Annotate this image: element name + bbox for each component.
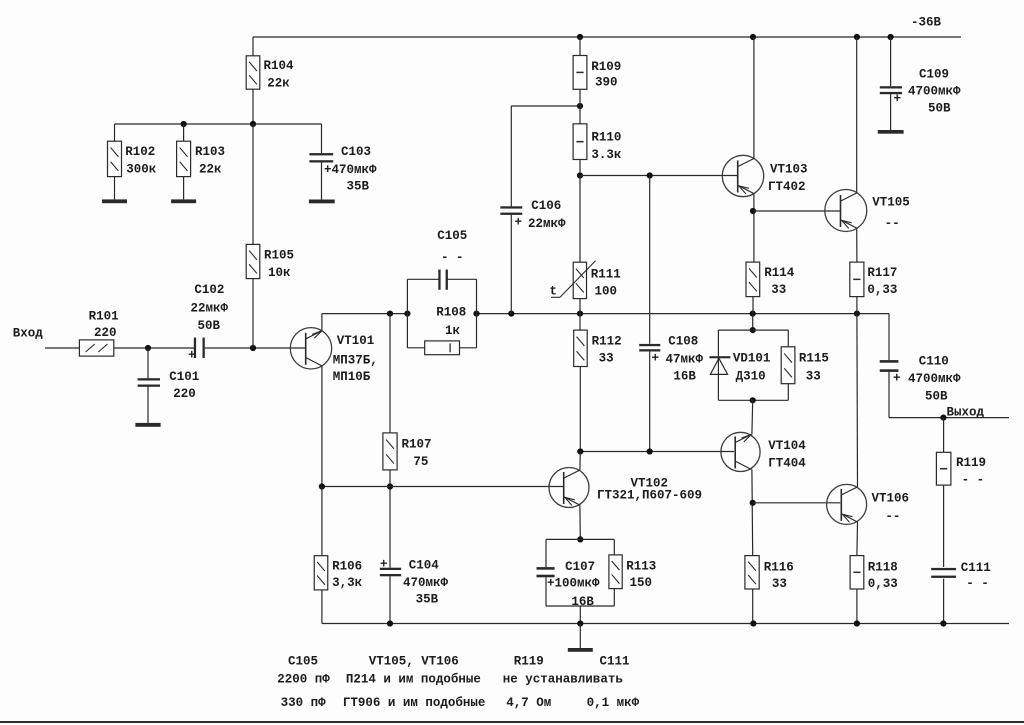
svg-text:16В: 16В	[673, 370, 696, 384]
svg-text:П214 и им подобные: П214 и им подобные	[346, 672, 481, 687]
svg-text:R107: R107	[402, 437, 432, 451]
svg-text:+: +	[188, 349, 196, 363]
svg-text:Д310: Д310	[736, 369, 766, 383]
svg-text:VD101: VD101	[733, 352, 771, 366]
svg-text:10к: 10к	[268, 266, 291, 280]
svg-text:33: 33	[771, 283, 786, 297]
svg-text:R110: R110	[591, 130, 621, 144]
svg-text:220: 220	[173, 387, 196, 401]
svg-text:Вход: Вход	[13, 327, 44, 341]
svg-text:300к: 300к	[126, 163, 157, 177]
svg-text:R115: R115	[799, 352, 829, 366]
svg-text:C108: C108	[668, 334, 698, 348]
svg-text:50В: 50В	[928, 102, 951, 116]
svg-text:ГТ402: ГТ402	[768, 180, 806, 194]
svg-text:+: +	[893, 371, 901, 385]
svg-text:220: 220	[94, 326, 117, 340]
svg-text:R106: R106	[332, 560, 362, 574]
svg-text:- -: - -	[966, 576, 989, 590]
svg-text:22мкФ: 22мкФ	[528, 217, 566, 231]
svg-text:C105: C105	[437, 229, 467, 243]
svg-text:22мкФ: 22мкФ	[191, 302, 229, 316]
svg-text:C110: C110	[919, 355, 949, 369]
svg-text:ГТ906 и им подобные: ГТ906 и им подобные	[343, 695, 486, 710]
svg-text:4700мкФ: 4700мкФ	[908, 85, 961, 99]
svg-text:-36В: -36В	[911, 16, 942, 30]
svg-text:+: +	[515, 216, 523, 230]
svg-text:C106: C106	[531, 199, 561, 213]
svg-text:470мкФ: 470мкФ	[403, 576, 449, 590]
svg-text:75: 75	[413, 455, 428, 469]
svg-text:33: 33	[599, 351, 614, 365]
svg-text:150: 150	[630, 576, 653, 590]
svg-text:t: t	[550, 285, 558, 299]
svg-text:R119: R119	[514, 655, 544, 669]
svg-text:R109: R109	[591, 60, 621, 74]
svg-text:R118: R118	[868, 561, 898, 575]
svg-text:4700мкФ: 4700мкФ	[908, 372, 961, 386]
svg-text:50В: 50В	[198, 319, 221, 333]
svg-text:не устанавливать: не устанавливать	[503, 673, 623, 687]
svg-text:R111: R111	[591, 268, 621, 282]
svg-text:C111: C111	[961, 561, 991, 575]
svg-text:VT104: VT104	[768, 439, 806, 453]
svg-text:R103: R103	[195, 145, 225, 159]
svg-text:3.3к: 3.3к	[591, 148, 622, 162]
svg-text:R113: R113	[626, 560, 656, 574]
svg-text:R112: R112	[592, 334, 622, 348]
svg-text:390: 390	[595, 76, 618, 90]
svg-text:1к: 1к	[445, 324, 461, 338]
svg-text:R116: R116	[764, 561, 794, 575]
svg-text:+: +	[380, 558, 388, 572]
svg-text:+100мкФ: +100мкФ	[547, 577, 600, 591]
svg-text:--: --	[885, 217, 900, 231]
svg-text:C103: C103	[341, 145, 371, 159]
svg-text:R104: R104	[264, 59, 295, 73]
svg-text:+: +	[652, 351, 660, 365]
svg-text:R108: R108	[436, 306, 466, 320]
svg-text:100: 100	[595, 285, 618, 299]
svg-text:C111: C111	[600, 655, 630, 669]
svg-text:33: 33	[806, 370, 821, 384]
svg-text:C109: C109	[919, 67, 949, 81]
svg-text:C104: C104	[409, 559, 440, 573]
svg-text:R105: R105	[264, 248, 294, 262]
svg-text:0,1 мкФ: 0,1 мкФ	[587, 696, 640, 710]
svg-text:- -: - -	[962, 473, 985, 487]
svg-text:50В: 50В	[925, 389, 948, 403]
svg-text:ГТ321,П607-609: ГТ321,П607-609	[597, 488, 702, 502]
svg-text:МП10Б: МП10Б	[333, 370, 371, 384]
svg-text:0,33: 0,33	[867, 283, 897, 297]
svg-text:47мкФ: 47мкФ	[666, 352, 704, 366]
svg-text:4,7 Ом: 4,7 Ом	[506, 696, 551, 710]
svg-text:35В: 35В	[347, 179, 370, 193]
svg-text:2200 пФ: 2200 пФ	[277, 673, 330, 687]
svg-text:VT105, VT106: VT105, VT106	[369, 655, 459, 669]
svg-text:VT101: VT101	[337, 334, 375, 348]
svg-text:16В: 16В	[571, 595, 594, 609]
svg-text:35В: 35В	[416, 593, 439, 607]
svg-text:330 пФ: 330 пФ	[281, 696, 327, 710]
svg-text:R117: R117	[867, 266, 897, 280]
svg-text:R114: R114	[764, 266, 795, 280]
svg-text:33: 33	[772, 577, 787, 591]
svg-text:ГТ404: ГТ404	[768, 456, 806, 470]
svg-text:--: --	[885, 509, 900, 523]
svg-text:C101: C101	[169, 370, 199, 384]
svg-text:C107: C107	[565, 560, 595, 574]
svg-text:VT105: VT105	[872, 196, 910, 210]
svg-text:R102: R102	[125, 145, 155, 159]
svg-text:МП37Б,: МП37Б,	[333, 353, 378, 367]
svg-text:0,33: 0,33	[868, 577, 898, 591]
svg-text:VT103: VT103	[770, 163, 808, 177]
svg-text:22к: 22к	[199, 163, 222, 177]
svg-text:C105: C105	[288, 655, 318, 669]
svg-text:+: +	[894, 92, 902, 106]
svg-text:+470мкФ: +470мкФ	[324, 163, 377, 177]
svg-text:VT106: VT106	[872, 491, 910, 505]
svg-text:22к: 22к	[267, 77, 290, 91]
svg-text:- -: - -	[441, 250, 464, 264]
svg-text:R119: R119	[956, 456, 986, 470]
svg-text:3,3к: 3,3к	[332, 576, 363, 590]
svg-text:C102: C102	[194, 283, 224, 297]
svg-text:R101: R101	[89, 310, 119, 324]
svg-text:Выход: Выход	[947, 406, 985, 420]
